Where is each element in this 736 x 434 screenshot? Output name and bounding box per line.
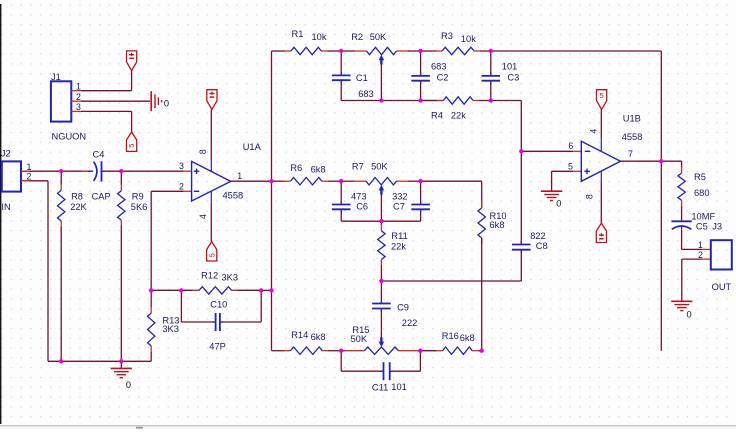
label R2 xyxy=(351,32,363,42)
label R13 xyxy=(162,315,179,325)
label C10 xyxy=(210,300,227,310)
label R1 xyxy=(292,29,304,39)
label R1 value xyxy=(312,32,327,42)
label R11 xyxy=(391,231,407,241)
capacitor C1 xyxy=(332,51,351,101)
label U1A xyxy=(243,142,262,152)
resistor R14 xyxy=(272,347,342,354)
resistor R11 xyxy=(378,221,385,281)
power symbol -V at J1 pin3 xyxy=(127,132,137,151)
capacitor C7 xyxy=(411,181,430,221)
svg-text:C8: C8 xyxy=(536,241,548,251)
junction U1B out xyxy=(659,159,663,163)
label R4 value xyxy=(451,111,466,121)
junction C11 left xyxy=(339,349,343,353)
svg-text:R9: R9 xyxy=(132,192,144,202)
svg-text:NGUON: NGUON xyxy=(52,131,87,141)
svg-text:0: 0 xyxy=(687,310,692,320)
label U1B value xyxy=(622,132,643,142)
label R14 xyxy=(291,330,308,340)
svg-text:R1: R1 xyxy=(292,29,304,39)
resistor R3 xyxy=(421,47,491,54)
label C8 value xyxy=(530,231,546,241)
wire C9 to R15 wiper xyxy=(380,309,382,338)
label C7 value xyxy=(392,191,408,201)
junction C10 right xyxy=(259,288,263,292)
svg-text:3: 3 xyxy=(179,161,184,171)
resistor R1 xyxy=(272,47,342,54)
resistor R10 xyxy=(478,202,485,245)
label R9 value xyxy=(131,202,148,212)
label C11 xyxy=(372,383,388,393)
label R7 value xyxy=(371,162,388,172)
junction C8 tap xyxy=(519,149,523,153)
wire ground bus xyxy=(48,360,151,362)
resistor R6 xyxy=(272,178,342,185)
svg-text:C3: C3 xyxy=(507,72,519,82)
svg-text:J2: J2 xyxy=(1,149,11,159)
J2 pin1 label xyxy=(27,162,32,172)
svg-text:R2: R2 xyxy=(351,32,363,42)
svg-text:C2: C2 xyxy=(437,72,449,82)
net 0 at J3 ground xyxy=(687,310,692,320)
wire J1 pin3 to VEE xyxy=(81,111,132,132)
svg-text:5: 5 xyxy=(568,161,573,171)
svg-text:332: 332 xyxy=(392,191,408,201)
junction R16 right xyxy=(480,349,484,353)
label C9 value xyxy=(402,318,418,328)
svg-text:47P: 47P xyxy=(209,342,226,352)
svg-text:C1: C1 xyxy=(356,73,368,83)
label R5 value xyxy=(694,188,710,198)
svg-text:C4: C4 xyxy=(93,149,105,159)
label C11 value xyxy=(391,382,407,392)
label R6 xyxy=(290,163,302,173)
label J2 xyxy=(1,149,11,159)
wire J3 pin2 to ground xyxy=(682,259,711,301)
wire U1A pin4 supply xyxy=(210,191,212,241)
J3 pin2 label xyxy=(698,250,703,260)
svg-text:0: 0 xyxy=(556,199,561,209)
svg-text:J1: J1 xyxy=(51,72,61,82)
label R10 xyxy=(490,211,507,221)
junction R12 rail xyxy=(269,288,273,292)
svg-text:683: 683 xyxy=(358,89,374,99)
svg-text:5K6: 5K6 xyxy=(131,202,148,212)
label C4 xyxy=(93,149,105,159)
capacitor C9 xyxy=(372,281,391,312)
svg-text:7: 7 xyxy=(628,149,633,159)
label C6 xyxy=(356,201,368,211)
capacitor C3 xyxy=(482,51,501,101)
wire R7 wiper to sub rail xyxy=(380,194,382,221)
J1 pin2 label xyxy=(76,92,81,102)
ground at J3 pin2 xyxy=(671,301,692,310)
U1A plus sign xyxy=(194,169,200,175)
svg-text:OUT: OUT xyxy=(712,282,732,292)
ground bottom-left xyxy=(111,368,132,377)
label R15 value xyxy=(351,334,368,344)
U1A pin1 label xyxy=(237,171,242,181)
svg-text:1: 1 xyxy=(698,240,703,250)
svg-text:R16: R16 xyxy=(442,331,459,341)
junction C1 top xyxy=(339,49,343,53)
svg-text:R11: R11 xyxy=(391,231,407,241)
capacitor C8 xyxy=(512,241,531,253)
svg-text:1: 1 xyxy=(237,171,242,181)
svg-text:C11: C11 xyxy=(372,383,388,393)
resistor R5 xyxy=(678,161,685,220)
svg-text:50K: 50K xyxy=(370,32,387,42)
wire output branch xyxy=(661,160,681,162)
junction R8 bottom xyxy=(59,359,63,363)
label R14 value xyxy=(311,332,326,342)
label R16 xyxy=(442,331,459,341)
label C8 xyxy=(536,241,548,251)
U1A pin3 label xyxy=(179,161,184,171)
wire right feedback rail xyxy=(660,51,662,351)
wire C10 loop xyxy=(181,290,261,322)
wire top section bottom rail xyxy=(341,100,521,102)
svg-text:10k: 10k xyxy=(461,34,476,44)
wire C8 branch upper xyxy=(520,101,522,245)
capacitor C4 xyxy=(82,161,106,181)
label C6 value xyxy=(351,191,367,201)
J1 pin3 label xyxy=(76,102,81,112)
junction R8 top xyxy=(59,169,63,173)
resistor R2 (pot) xyxy=(341,47,420,54)
U1B pin6 label xyxy=(568,141,573,151)
wire J1 pin2 to ground xyxy=(81,100,150,102)
label C1 value xyxy=(358,89,374,99)
svg-text:822: 822 xyxy=(530,231,546,241)
wire R10 bottom to bottom row xyxy=(481,238,483,351)
wire sub row R11 to C8 xyxy=(381,280,521,282)
svg-text:C5: C5 xyxy=(696,222,708,232)
svg-text:10k: 10k xyxy=(312,32,327,42)
svg-text:683: 683 xyxy=(431,62,447,72)
svg-text:222: 222 xyxy=(402,318,418,328)
op-amp U1A xyxy=(192,161,231,201)
svg-text:50K: 50K xyxy=(371,162,388,172)
svg-text:IN: IN xyxy=(1,202,10,212)
U1A pin4 label xyxy=(198,214,208,219)
U1B minus sign xyxy=(585,150,591,152)
R15 wiper arrow xyxy=(379,337,385,347)
net 0 at U1B ground xyxy=(556,199,561,209)
junction C3 top xyxy=(489,49,493,53)
svg-text:CAP: CAP xyxy=(92,192,111,202)
svg-text:R12: R12 xyxy=(201,270,218,280)
wire U1B pin6 xyxy=(521,150,581,152)
svg-text:6k8: 6k8 xyxy=(490,220,505,230)
connector J2 xyxy=(2,161,21,191)
label R9 xyxy=(132,192,144,202)
junction C7 top xyxy=(418,179,422,183)
svg-text:22k: 22k xyxy=(451,111,466,121)
label R4 xyxy=(431,111,443,121)
label R7 xyxy=(352,162,364,172)
resistor R16 xyxy=(421,347,482,354)
resistor R15 (pot) xyxy=(341,347,420,354)
svg-text:3K3: 3K3 xyxy=(222,272,239,282)
svg-text:6k8: 6k8 xyxy=(460,333,475,343)
svg-text:2: 2 xyxy=(179,181,184,191)
ground at J1 pin2 (rotated) xyxy=(151,91,161,111)
resistor R8 xyxy=(58,171,65,361)
svg-text:2: 2 xyxy=(76,92,81,102)
label R12 xyxy=(201,270,218,280)
svg-text:R5: R5 xyxy=(694,172,706,182)
J1 pin1 label xyxy=(76,82,81,92)
svg-text:101: 101 xyxy=(502,62,518,72)
svg-text:1: 1 xyxy=(76,82,81,92)
svg-text:1: 1 xyxy=(27,162,32,172)
svg-text:22k: 22k xyxy=(391,242,406,252)
label R11 value xyxy=(391,242,406,252)
svg-text:3K3: 3K3 xyxy=(162,324,179,334)
power symbol +V at U1B pin8 xyxy=(596,223,606,242)
svg-text:4558: 4558 xyxy=(622,132,643,142)
junction C10 left xyxy=(179,288,183,292)
label C9 xyxy=(397,303,409,313)
resistor R4 xyxy=(421,97,491,104)
power symbol +V at J1 pin1 xyxy=(127,51,137,71)
label R15 xyxy=(352,325,369,335)
svg-text:J3: J3 xyxy=(712,222,722,232)
svg-text:680: 680 xyxy=(694,188,710,198)
svg-text:6k8: 6k8 xyxy=(311,332,326,342)
svg-text:R7: R7 xyxy=(352,162,364,172)
junction C3 bottom xyxy=(489,98,493,102)
svg-text:4558: 4558 xyxy=(223,191,244,201)
svg-text:C6: C6 xyxy=(356,201,368,211)
svg-text:0: 0 xyxy=(126,380,131,390)
label C5 value xyxy=(691,212,715,222)
wire gnd stub bottom-left xyxy=(120,361,122,368)
junction C6 top xyxy=(339,179,343,183)
junction R9 top xyxy=(119,169,123,173)
wire R12 row xyxy=(151,289,271,291)
wire U1B pin5 to ground xyxy=(552,171,582,191)
power symbol -V at U1B pin4 xyxy=(597,90,607,110)
junction R12 left xyxy=(149,288,153,292)
capacitor C6 xyxy=(332,181,351,221)
wire U1B output xyxy=(621,160,662,162)
label C7 xyxy=(393,201,405,211)
wire C8 branch lower xyxy=(520,250,522,281)
label OUT xyxy=(712,282,732,292)
J1 pin stubs xyxy=(71,91,81,112)
label C5 xyxy=(696,222,708,232)
wire R5-C5-J3 pin1 xyxy=(682,230,711,250)
svg-text:8: 8 xyxy=(198,149,208,154)
J2 pin stubs xyxy=(21,171,30,181)
svg-text:R3: R3 xyxy=(441,31,453,41)
label R8 value xyxy=(70,202,87,212)
ground at U1B pin5 xyxy=(541,191,562,200)
svg-text:2: 2 xyxy=(698,250,703,260)
U1A pin2 label xyxy=(179,181,184,191)
resistor R7 (pot) xyxy=(341,178,420,185)
svg-text:0: 0 xyxy=(164,99,169,109)
svg-text:R4: R4 xyxy=(431,111,443,121)
label R3 xyxy=(441,31,453,41)
label R10 value xyxy=(490,220,505,230)
label C3 value xyxy=(502,62,518,72)
U1A pin8 label xyxy=(198,149,208,154)
wire U1B pin4 supply xyxy=(600,110,602,152)
svg-text:R6: R6 xyxy=(290,163,302,173)
window left border xyxy=(0,4,1,424)
U1B pin4 label xyxy=(589,129,599,134)
bottom scrollbar strip xyxy=(0,425,736,426)
wire input row xyxy=(21,170,192,172)
svg-text:R14: R14 xyxy=(291,330,308,340)
label C2 value xyxy=(431,62,447,72)
label R8 xyxy=(71,192,83,202)
R7 wiper arrow xyxy=(379,185,385,195)
junction R2 wiper bottom xyxy=(379,98,383,102)
label R6 value xyxy=(311,164,326,174)
wire U1B pin8 supply xyxy=(600,171,602,223)
label R12 value xyxy=(222,272,239,282)
svg-text:22K: 22K xyxy=(70,202,87,212)
label U1B xyxy=(623,114,641,124)
J3 pin1 label xyxy=(698,240,703,250)
junction U1A out rail xyxy=(269,179,273,183)
connector J1 xyxy=(51,81,71,121)
svg-text:R8: R8 xyxy=(71,192,83,202)
svg-text:4: 4 xyxy=(589,129,599,134)
label R16 value xyxy=(460,333,475,343)
svg-text:U1A: U1A xyxy=(243,142,262,152)
svg-text:473: 473 xyxy=(351,191,367,201)
svg-text:50K: 50K xyxy=(351,334,368,344)
svg-text:2: 2 xyxy=(27,172,32,182)
wire top row right segment xyxy=(491,50,662,52)
svg-text:101: 101 xyxy=(391,382,407,392)
label C1 xyxy=(356,73,368,83)
junction R9 bottom xyxy=(119,359,123,363)
U1A minus sign xyxy=(194,190,200,192)
net 0 bottom-left xyxy=(126,380,131,390)
svg-text:10MF: 10MF xyxy=(691,212,715,222)
wire J2 pin2 down xyxy=(21,181,48,361)
svg-text:U1B: U1B xyxy=(623,114,641,124)
label U1A value xyxy=(223,191,244,201)
label C3 xyxy=(507,72,519,82)
junction R11 bottom xyxy=(379,279,383,283)
wire mid row C7 to R10 xyxy=(421,181,482,208)
label CAP xyxy=(92,192,111,202)
svg-text:C9: C9 xyxy=(397,303,409,313)
junction C2 bottom xyxy=(418,98,422,102)
junction C11 right xyxy=(418,349,422,353)
U1B plus sign xyxy=(584,169,590,175)
capacitor C5 xyxy=(671,220,691,230)
label NGUON xyxy=(52,131,87,141)
wire U1A pin2 feedback xyxy=(151,191,191,290)
label R5 xyxy=(694,172,706,182)
label J3 xyxy=(712,222,722,232)
svg-text:C10: C10 xyxy=(210,300,227,310)
resistor R12 xyxy=(151,287,261,294)
svg-text:8: 8 xyxy=(585,194,595,199)
capacitor C10 xyxy=(181,313,261,331)
label R2 value xyxy=(370,32,387,42)
net 0 at J1 ground xyxy=(164,99,169,109)
R2 wiper arrow xyxy=(379,55,385,65)
svg-text:4: 4 xyxy=(198,214,208,219)
resistor R9 xyxy=(118,171,125,361)
svg-text:3: 3 xyxy=(76,102,81,112)
power symbol -V at U1A pin4 xyxy=(207,242,217,261)
wire C6-C7 bottom rail xyxy=(341,220,420,222)
svg-text:6k8: 6k8 xyxy=(311,164,326,174)
power symbol +V at U1A pin8 xyxy=(207,90,217,110)
label R3 value xyxy=(461,34,476,44)
resistor R13 xyxy=(148,290,155,361)
svg-text:C7: C7 xyxy=(393,201,405,211)
capacitor C11 xyxy=(341,362,420,380)
U1B pin7 label xyxy=(628,149,633,159)
junction C2 top xyxy=(418,49,422,53)
wire J1 pin1 to VCC xyxy=(81,71,132,91)
wire R2 wiper to bottom rail xyxy=(380,64,382,101)
capacitor C2 xyxy=(411,51,430,101)
J2 pin2 label xyxy=(27,172,32,182)
svg-text:5: 5 xyxy=(127,144,136,148)
wire left rail xyxy=(271,51,273,351)
wire C11 loop xyxy=(341,351,420,372)
op-amp U1B xyxy=(581,141,620,181)
svg-text:5: 5 xyxy=(207,253,216,257)
label C10 value xyxy=(209,342,226,352)
junction R7 wiper bottom xyxy=(379,219,383,223)
label J1 xyxy=(51,72,61,82)
wire U1A pin8 supply xyxy=(210,110,212,172)
U1B pin5 label xyxy=(568,161,573,171)
svg-text:6: 6 xyxy=(568,141,573,151)
wire U1A output xyxy=(231,180,272,182)
connector J3 xyxy=(711,240,732,269)
label R13 value xyxy=(162,324,179,334)
label C2 xyxy=(437,72,449,82)
svg-text:5: 5 xyxy=(600,91,604,100)
U1B pin8 label xyxy=(585,194,595,199)
label IN xyxy=(1,202,10,212)
